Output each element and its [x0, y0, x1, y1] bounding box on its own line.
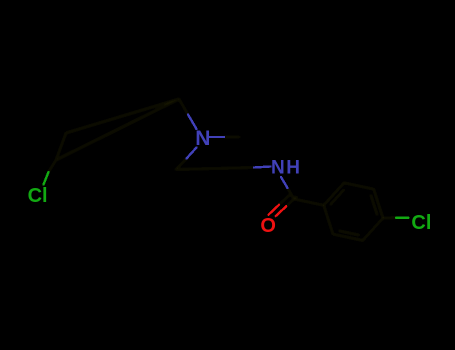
bond N2-C9 carbon half [288, 188, 295, 199]
bond N1-C6 carbon half [176, 159, 187, 170]
bond Cl1-C green half [44, 172, 49, 185]
bond N1-C6 blue half [187, 148, 197, 159]
right benzene inner aromatic line 4-5 [330, 190, 344, 205]
C9=O line2 red half [276, 206, 286, 216]
svg-text:O: O [260, 215, 276, 237]
bond C8-N2 blue half [254, 167, 271, 168]
propyl chain horizontal carbon [176, 168, 254, 170]
left ring left edge [56, 133, 66, 160]
left ring lower edge run [56, 99, 179, 160]
bond C2-N1 blue half [188, 115, 197, 130]
left ring upper edge run [66, 99, 179, 133]
bond N2-C9 blue half [281, 177, 288, 188]
bond N1-methyl blue half [209, 136, 224, 138]
C9=O line1 red half [269, 205, 279, 215]
svg-text:N: N [195, 127, 210, 150]
bond C2-N1 carbon half [179, 99, 188, 115]
right benzene ring outline [324, 183, 383, 241]
bond ring-Cl2 carbon half [383, 217, 396, 219]
svg-text:Cl: Cl [411, 212, 431, 234]
bond Cl1-C carbon half [49, 160, 57, 172]
right benzene inner aromatic line 6-1 [371, 195, 377, 215]
C9=O line1 carbon half [279, 195, 289, 205]
bond N1-methyl carbon half [224, 136, 239, 138]
bond ring-Cl2 green half [396, 217, 409, 219]
right benzene inner aromatic line 2-3 [339, 231, 359, 235]
svg-text:Cl: Cl [28, 185, 48, 207]
svg-text:NH: NH [271, 158, 301, 179]
bond C9-ring [294, 199, 324, 205]
C9=O line2 carbon half [286, 197, 296, 207]
